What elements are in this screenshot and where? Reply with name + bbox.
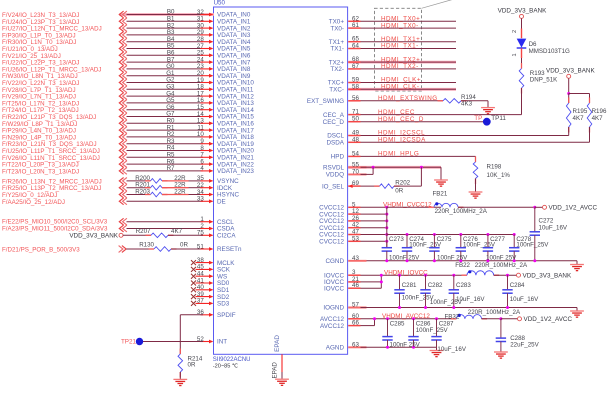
svg-text:FB21: FB21 [433,190,448,197]
svg-text:R130: R130 [139,241,154,248]
svg-text:D6: D6 [529,41,537,48]
svg-text:4K3: 4K3 [461,100,473,107]
svg-text:CVCC12: CVCC12 [319,239,344,246]
svg-text:220R_100MHz_2A: 220R_100MHz_2A [435,208,488,215]
svg-text:VHDMI_AVCC12: VHDMI_AVCC12 [382,313,430,320]
svg-text:U50: U50 [214,0,226,7]
svg-text:IO_SEL: IO_SEL [322,183,345,190]
svg-text:FB32: FB32 [445,313,460,320]
svg-text:10uF_16V: 10uF_16V [437,346,466,353]
svg-text:10uF_16V: 10uF_16V [510,296,539,303]
svg-text:F/T23/IO_L20N_T3_13/ADJ: F/T23/IO_L20N_T3_13/ADJ [2,168,79,175]
svg-text:IOGND: IOGND [323,305,344,312]
svg-text:100nF_25V: 100nF_25V [516,242,549,249]
svg-text:100nF 25V: 100nF 25V [486,254,517,261]
svg-text:-20~85 ℃: -20~85 ℃ [213,364,239,370]
svg-text:100nF 25V: 100nF 25V [390,341,421,348]
svg-text:HDMI_HPLG: HDMI_HPLG [378,151,419,158]
svg-text:0R: 0R [180,241,188,248]
svg-text:57: 57 [352,302,359,309]
svg-text:C283: C283 [456,282,471,289]
svg-text:10K_1%: 10K_1% [487,172,511,179]
svg-text:CI2CA: CI2CA [217,233,236,240]
svg-text:VDD_1V2_AVCC: VDD_1V2_AVCC [549,205,598,212]
svg-text:HDMI_TX2-: HDMI_TX2- [381,63,419,70]
svg-text:DNP_51K: DNP_51K [530,76,558,83]
svg-text:100nF_25V: 100nF_25V [416,327,449,334]
svg-text:SII9022ACNU: SII9022ACNU [213,357,251,363]
svg-text:22uF_25V: 22uF_25V [510,341,539,348]
svg-text:HDMI_CEC: HDMI_CEC [378,109,415,116]
svg-text:61: 61 [352,22,359,29]
svg-text:1: 1 [512,53,518,56]
svg-text:VDD_1V2_AVCC: VDD_1V2_AVCC [524,316,573,323]
svg-text:67: 67 [352,63,359,70]
svg-text:58: 58 [352,83,359,90]
svg-text:63: 63 [352,341,359,348]
svg-text:4K7: 4K7 [573,115,585,122]
svg-text:TX0-: TX0- [330,25,344,32]
svg-text:SPDIF: SPDIF [217,312,236,319]
svg-text:TP11: TP11 [491,115,506,122]
svg-text:TP: TP [474,115,482,122]
svg-text:100nF 25V: 100nF 25V [389,254,420,261]
svg-text:MMSD103T1G: MMSD103T1G [529,48,570,55]
svg-text:54: 54 [352,150,359,157]
svg-text:C272: C272 [539,217,554,224]
svg-text:71: 71 [352,109,359,116]
svg-text:53: 53 [352,235,359,242]
svg-text:HDMI_I2CSDA: HDMI_I2CSDA [378,137,426,144]
svg-text:CGND: CGND [325,258,344,265]
svg-text:EPAD: EPAD [271,362,278,379]
svg-text:DSDA: DSDA [327,140,345,147]
svg-text:37: 37 [197,298,204,305]
svg-text:RESETn: RESETn [217,246,242,253]
svg-text:F/A23/PS_MIO11_500/I2C0_SDA/3V: F/A23/PS_MIO11_500/I2C0_SDA/3V3 [2,225,108,232]
svg-text:AGND: AGND [326,345,345,352]
svg-text:HDMI_TX1-: HDMI_TX1- [381,43,419,50]
svg-text:VDD_3V3_BANK: VDD_3V3_BANK [498,8,547,15]
svg-text:C275: C275 [437,236,452,243]
svg-text:HDMI_TX0-: HDMI_TX0- [381,22,419,29]
svg-text:CEC_D: CEC_D [323,119,345,126]
svg-text:69: 69 [352,180,359,187]
svg-text:HDMI_CEC_D: HDMI_CEC_D [378,116,424,123]
svg-text:36: 36 [197,309,204,316]
svg-text:56: 56 [352,95,359,102]
svg-text:55: 55 [352,161,359,168]
svg-text:52: 52 [197,336,204,343]
svg-text:R7: R7 [167,165,175,172]
svg-text:C277: C277 [490,236,505,243]
svg-text:50: 50 [352,116,359,123]
svg-text:100nF_25V: 100nF_25V [430,299,463,306]
svg-text:0R: 0R [395,187,403,194]
svg-text:4K7: 4K7 [592,115,604,122]
svg-text:C282: C282 [428,282,443,289]
svg-text:TXC-: TXC- [329,87,344,94]
svg-text:DE: DE [217,199,226,206]
svg-text:0R: 0R [188,362,196,369]
svg-text:VDD_3V3_BANK: VDD_3V3_BANK [546,68,595,75]
svg-text:22R: 22R [174,189,186,196]
svg-text:IOVCC: IOVCC [324,285,344,292]
svg-text:100nF 25V: 100nF 25V [437,254,468,261]
svg-text:F/AA25/IO_25_12/ADJ: F/AA25/IO_25_12/ADJ [2,199,65,206]
svg-text:VDD_3V3_BANK: VDD_3V3_BANK [69,233,118,240]
svg-text:F/D21/PS_POR_B_500/3V3: F/D21/PS_POR_B_500/3V3 [2,247,80,254]
svg-text:66: 66 [352,320,359,327]
svg-text:R198: R198 [487,164,502,171]
svg-text:EXT_SWING: EXT_SWING [307,98,344,105]
svg-text:R202: R202 [395,179,410,186]
svg-text:220R_100MHz_2A: 220R_100MHz_2A [475,262,528,269]
svg-text:48: 48 [352,136,359,143]
svg-text:TX2-: TX2- [330,66,344,73]
svg-text:VDDQ: VDDQ [326,172,344,179]
svg-text:HDMI_CLK-: HDMI_CLK- [381,84,419,91]
svg-text:VDATA_IN23: VDATA_IN23 [217,168,254,175]
svg-text:HDMI_EXTSWING: HDMI_EXTSWING [378,95,438,102]
svg-text:CEC_A: CEC_A [323,112,345,119]
svg-text:220R_100MHz_2A: 220R_100MHz_2A [468,309,521,316]
svg-text:70: 70 [352,168,359,175]
svg-text:C285: C285 [390,321,405,328]
svg-text:VDD_3V3_BANK: VDD_3V3_BANK [523,272,572,279]
svg-text:VHDMI_IOVCC: VHDMI_IOVCC [384,269,428,276]
svg-text:R203: R203 [135,189,150,196]
svg-text:64: 64 [352,43,359,50]
svg-text:SD3: SD3 [217,301,230,308]
svg-text:EPAD: EPAD [274,335,281,352]
svg-text:4K7: 4K7 [171,228,183,235]
svg-text:FB22: FB22 [455,262,470,269]
svg-text:TX1-: TX1- [330,46,344,53]
svg-text:2: 2 [512,30,518,33]
svg-text:INT: INT [217,339,227,346]
svg-text:HPD: HPD [331,154,345,161]
svg-text:C273: C273 [389,236,404,243]
svg-text:46: 46 [352,282,359,289]
svg-text:43: 43 [352,255,359,262]
svg-text:RSVDL: RSVDL [323,165,344,172]
svg-text:C281: C281 [402,282,417,289]
svg-text:TP21: TP21 [121,339,137,346]
svg-text:AVCC12: AVCC12 [320,323,345,330]
svg-text:10uF_16V: 10uF_16V [539,225,568,232]
svg-text:R207: R207 [136,228,151,235]
svg-text:C284: C284 [510,282,525,289]
